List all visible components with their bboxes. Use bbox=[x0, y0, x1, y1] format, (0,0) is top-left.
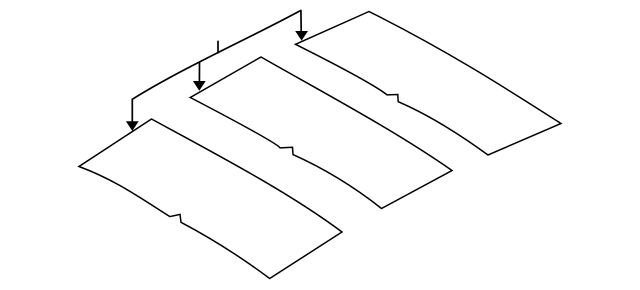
wire drop to arrow 1 bbox=[131, 99, 133, 123]
panel mat 2 (middle) bbox=[190, 57, 452, 209]
tick mark on leader bbox=[217, 41, 219, 54]
wire leader diagonal bbox=[132, 11, 300, 100]
panel mat 1 (bottom-left) bbox=[79, 119, 342, 279]
wire drop to arrow 2 bbox=[198, 62, 200, 83]
wire drop to arrow 3 bbox=[300, 10, 302, 32]
arrowhead 1 bbox=[126, 121, 139, 131]
panel mat 3 (top-right) bbox=[296, 12, 562, 156]
arrowhead 2 bbox=[193, 81, 206, 91]
arrowhead 3 bbox=[295, 31, 308, 41]
